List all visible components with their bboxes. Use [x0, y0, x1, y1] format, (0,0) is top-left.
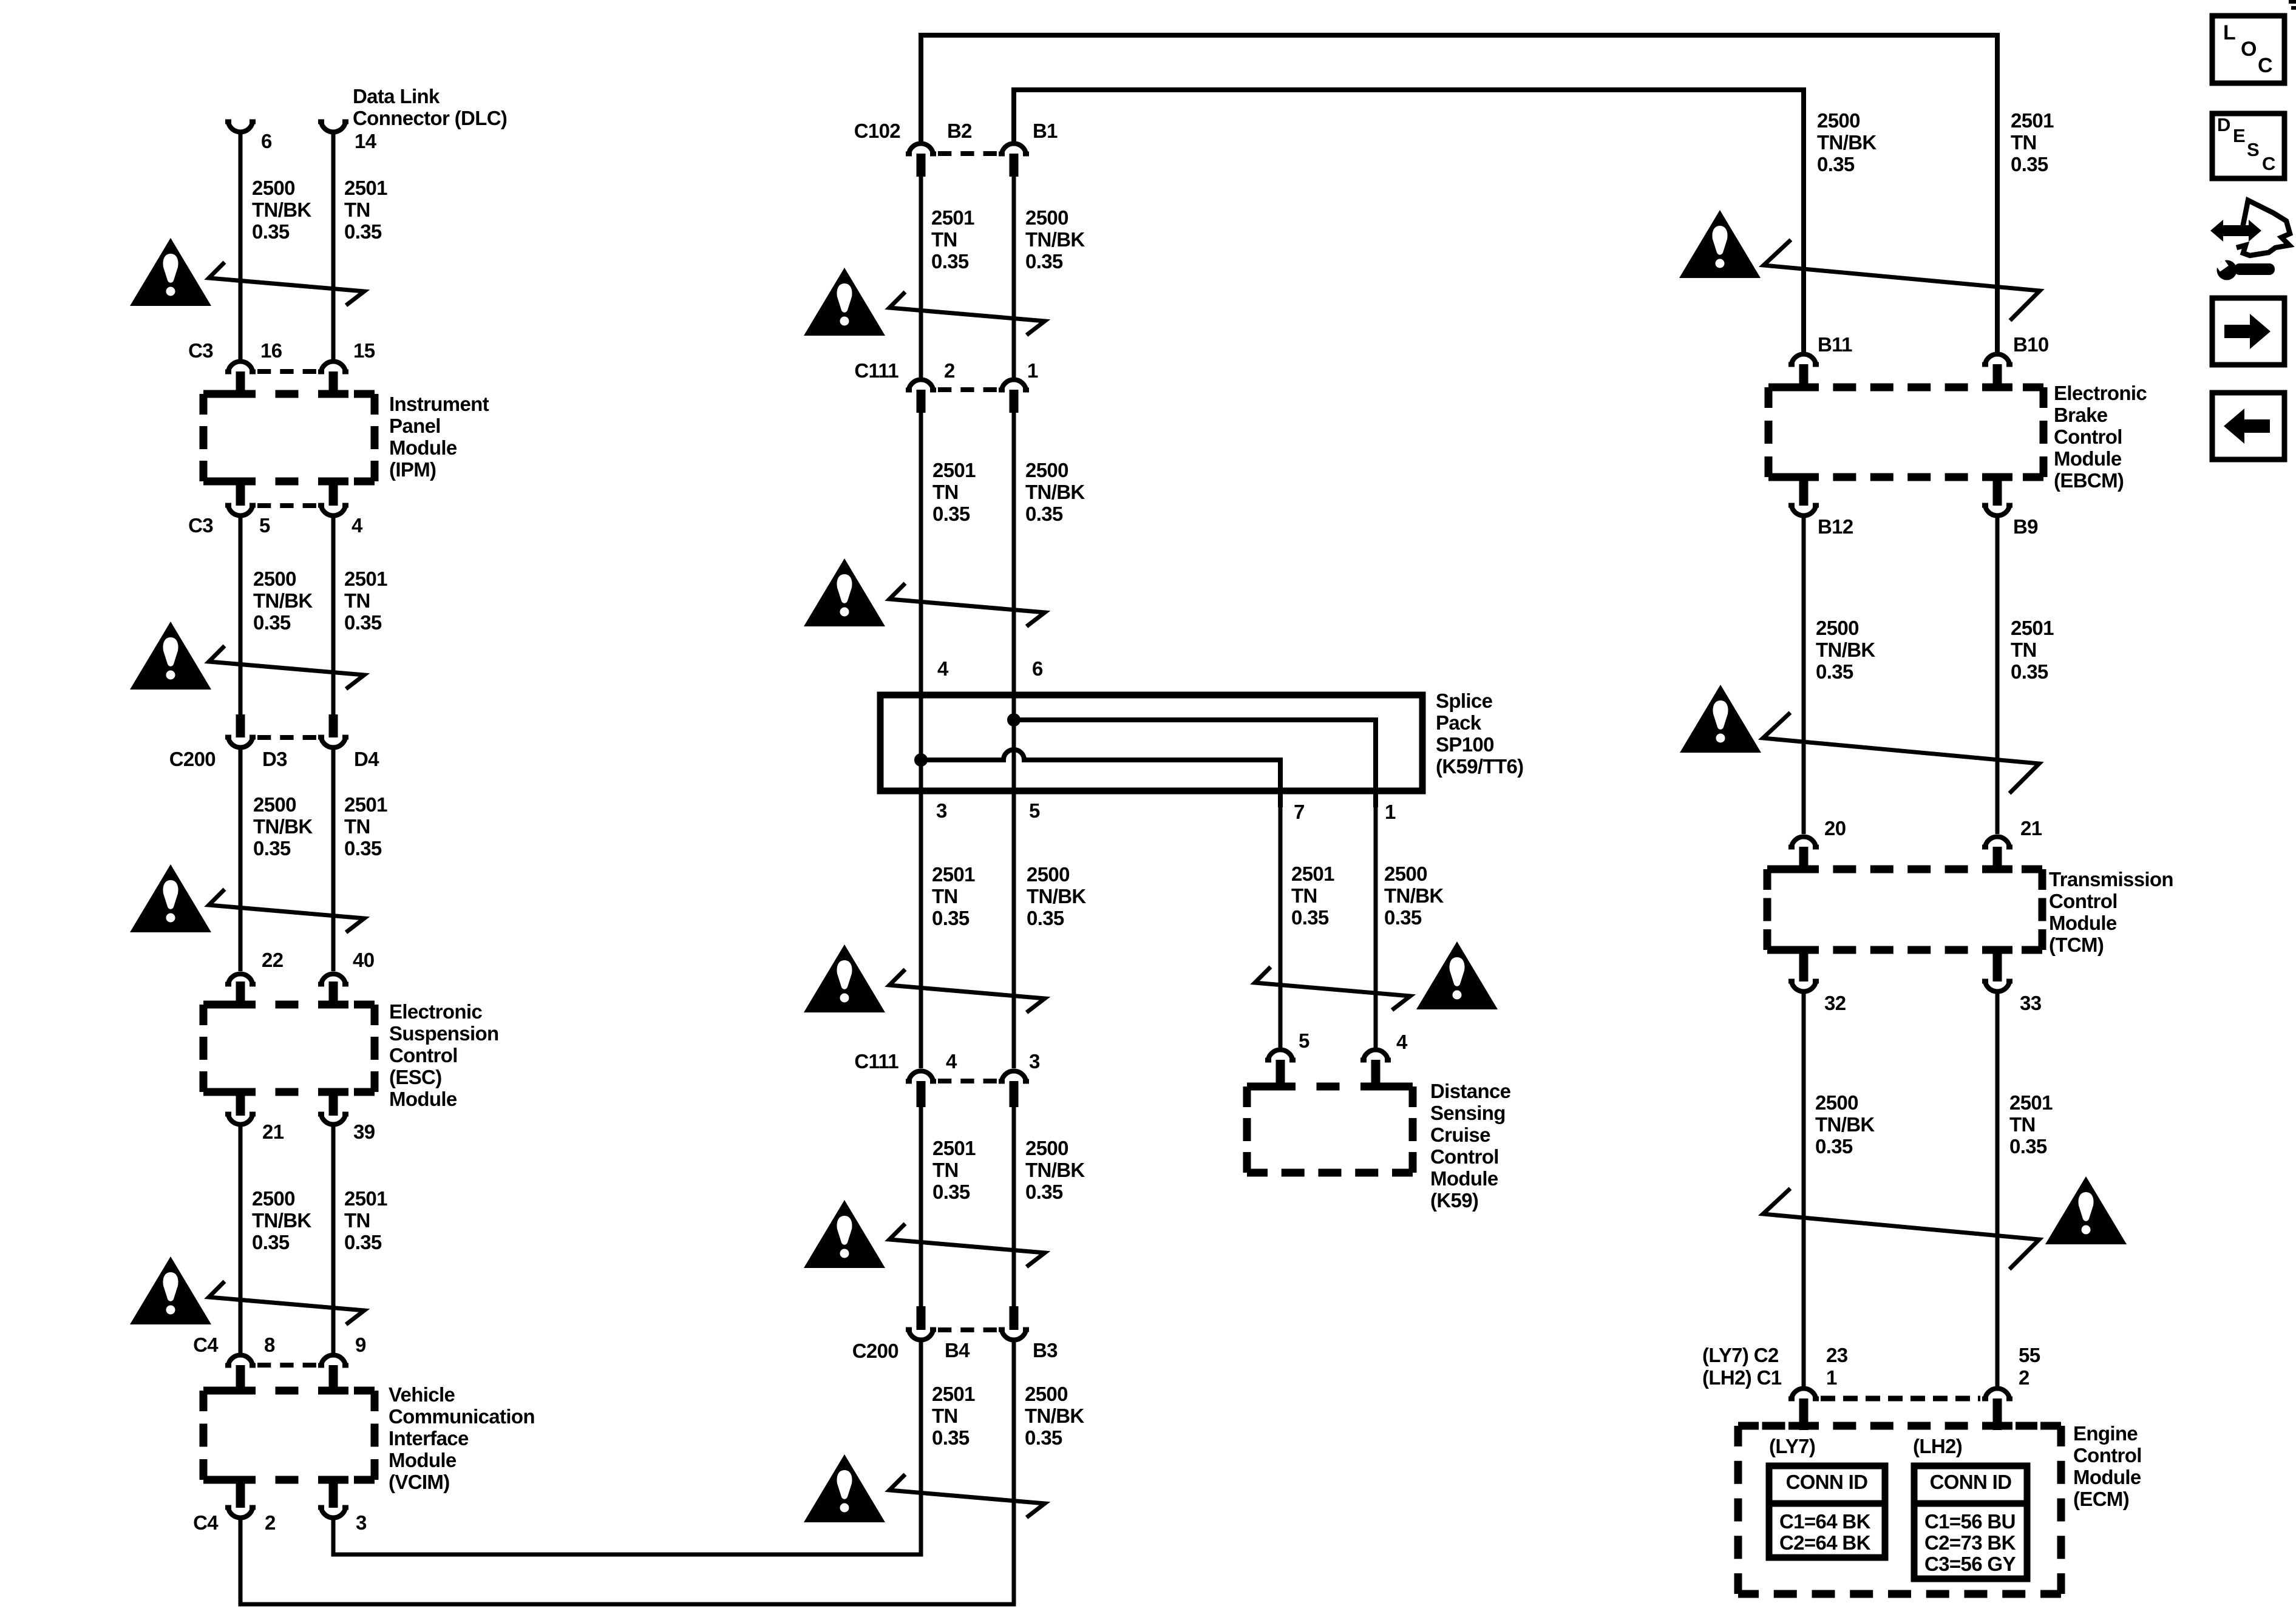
pin5 stub	[1276, 1060, 1285, 1090]
connector TCM pin33 cup	[1982, 979, 2012, 991]
wire 2500 TN/BK C102-B1 to C111-1	[1012, 175, 1016, 379]
warning triangle 9	[804, 1454, 885, 1522]
svg-text:C: C	[2258, 54, 2272, 77]
B9 stub	[1993, 475, 2002, 506]
connector C3 pin16 dome	[225, 361, 256, 374]
sidebar next arrow button	[2212, 298, 2284, 365]
B2 stub	[917, 154, 926, 177]
wire 2500 TN/BK splice-1 to K59-4	[1374, 807, 1378, 1048]
svg-text:Connector (DLC): Connector (DLC)	[353, 107, 507, 129]
svg-text:C: C	[2262, 153, 2275, 174]
C3 dashed link bottom	[257, 503, 316, 508]
svg-text:B2: B2	[947, 120, 972, 142]
pin4 stub	[329, 479, 338, 506]
svg-text:CONN ID: CONN ID	[1930, 1471, 2012, 1493]
svg-text:2: 2	[2019, 1366, 2029, 1389]
C4 dashed link	[257, 1363, 316, 1368]
connector C200 D4 cup	[318, 735, 348, 748]
svg-text:S: S	[2247, 139, 2259, 160]
connector DLC pin 14 cup	[318, 120, 348, 132]
wire 2501 TN C111-4 to C200-B4	[919, 1106, 923, 1310]
warning triangle 6	[804, 558, 885, 626]
harness crossing symbol 3	[209, 889, 364, 932]
pin33 stub	[1993, 947, 2002, 981]
harness crossing symbol 2	[209, 646, 364, 689]
svg-text:3: 3	[356, 1511, 367, 1534]
module box ESC	[203, 1005, 375, 1092]
svg-text:5: 5	[1299, 1029, 1309, 1052]
svg-text:B1: B1	[1033, 120, 1058, 142]
pin23 stub	[1799, 1398, 1809, 1430]
connector ESC pin39 cup	[318, 1112, 348, 1125]
pin21 stub	[236, 1090, 245, 1116]
pin16 stub	[236, 371, 245, 396]
wire 2501 TN TCM-33 to ECM-55	[1995, 994, 2000, 1386]
module box VCIM	[203, 1391, 375, 1480]
pin55 stub	[1993, 1398, 2002, 1430]
warning triangle 11	[1679, 210, 1761, 278]
connector ESC pin21 cup	[225, 1112, 256, 1125]
svg-text:C1=64 BK: C1=64 BK	[1779, 1510, 1871, 1533]
pin40 stub	[329, 981, 338, 1007]
CONN ID table LY7	[1769, 1466, 1885, 1558]
C102 dashed link	[938, 151, 997, 156]
svg-text:21: 21	[2020, 817, 2042, 839]
svg-text:C111: C111	[854, 1050, 898, 1073]
svg-text:2: 2	[944, 359, 955, 382]
sidebar repair icon double arrow	[2210, 220, 2261, 242]
svg-text:C3: C3	[188, 514, 213, 537]
svg-text:15: 15	[353, 339, 375, 362]
connector C111 pin4 dome	[906, 1071, 936, 1083]
svg-text:7: 7	[1294, 801, 1305, 823]
svg-text:O: O	[2241, 38, 2257, 61]
svg-text:C4: C4	[193, 1511, 219, 1534]
svg-text:B9: B9	[2013, 515, 2038, 538]
module box ECM	[1738, 1426, 2061, 1594]
wire 2500 TN/BK C111-3 to C200-B3	[1012, 1106, 1016, 1310]
svg-text:C102: C102	[854, 120, 901, 142]
connector C3 pin15 dome	[318, 361, 348, 374]
B1 stub	[1010, 154, 1019, 177]
warning triangle 10	[1416, 941, 1498, 1009]
svg-text:E: E	[2233, 125, 2245, 146]
pin3 stub	[329, 1483, 338, 1508]
svg-text:4: 4	[946, 1050, 957, 1073]
wire 2500 TN/BK ESC-21 to VCIM-8	[239, 1127, 243, 1354]
wire 2501 TN IPM-4 to C200-D4	[331, 517, 336, 717]
pin20 stub	[1799, 847, 1809, 873]
ECM dashed link	[1821, 1396, 1980, 1402]
C200 D3 stub	[236, 714, 245, 737]
svg-text:C3: C3	[188, 339, 213, 362]
warning triangle 3	[130, 864, 211, 932]
svg-text:5: 5	[259, 514, 270, 537]
harness crossing symbol 12	[1763, 713, 2039, 793]
pin22 stub	[236, 981, 245, 1007]
svg-text:C2=73 BK: C2=73 BK	[1924, 1531, 2016, 1554]
connector C3 pin5 cup	[225, 503, 256, 515]
svg-text:23: 23	[1826, 1344, 1848, 1366]
svg-text:2: 2	[265, 1511, 276, 1534]
wire 2500 TN/BK IPM-5 to C200-D3	[239, 517, 243, 717]
svg-text:C200: C200	[169, 748, 216, 770]
pin4 stub	[1371, 1060, 1381, 1090]
svg-text:4: 4	[1396, 1031, 1408, 1053]
wire 2500 TN/BK C200-D3 to ESC-22	[239, 748, 243, 971]
svg-text:C111: C111	[854, 359, 898, 382]
wire 2500 TN/BK TCM-32 to ECM-23	[1802, 994, 1806, 1386]
warning triangle 7	[804, 944, 885, 1012]
wire 2501 TN C102-B2 to C111-2	[919, 175, 923, 379]
connector EBCM B10 dome	[1982, 354, 2012, 367]
wire VCIM-3 to C200-B4 bottom run	[333, 1341, 921, 1554]
C200 B4 stub	[917, 1306, 926, 1330]
svg-text:4: 4	[352, 514, 363, 537]
pin21 stub	[1993, 847, 2002, 873]
clipped page mark top right corner	[2289, 2, 2296, 8]
connector C102 B2 dome	[906, 143, 936, 156]
svg-text:D3: D3	[262, 748, 287, 770]
C200 B3 stub	[1010, 1306, 1019, 1330]
pin2 stub	[236, 1483, 245, 1508]
connector C4 pin3 cup	[318, 1505, 348, 1518]
wire 2501 TN EBCM-B9 to TCM-21	[1995, 518, 2000, 834]
svg-text:C1=56 BU: C1=56 BU	[1924, 1510, 2016, 1533]
connector EBCM B12 cup	[1788, 503, 1819, 515]
connector C4 pin8 dome	[225, 1355, 256, 1368]
wire 2500 TN/BK EBCM-B12 to TCM-20	[1802, 518, 1806, 834]
harness crossing symbol 6	[889, 583, 1045, 626]
svg-text:39: 39	[353, 1120, 375, 1143]
C200 D4 stub	[329, 714, 338, 737]
wire 2501 TN C111-2 through splice pack	[919, 410, 923, 1068]
svg-text:33: 33	[2020, 992, 2042, 1014]
pin5 stub	[236, 479, 245, 506]
C111 dashed link lower	[938, 1079, 997, 1083]
svg-text:20: 20	[1824, 817, 1846, 839]
sidebar DESC button	[2212, 114, 2284, 178]
warning triangle 1	[130, 238, 211, 306]
connector ESC pin40 dome	[318, 974, 348, 986]
connector ECM pin55 dome	[1982, 1389, 2012, 1402]
pin9 stub	[329, 1365, 338, 1393]
wire second run to EBCM B11	[1014, 90, 1804, 352]
B12 stub	[1799, 475, 1809, 506]
connector C200 B3 cup	[999, 1327, 1029, 1340]
junction dot on wire 2500	[1007, 713, 1021, 727]
warning triangle 8	[804, 1200, 885, 1268]
junction dot on wire 2501	[914, 753, 928, 767]
wire 2501 TN C200-D4 to ESC-40	[331, 748, 336, 971]
sidebar LOC button	[2212, 16, 2284, 83]
svg-text:1: 1	[1826, 1366, 1837, 1389]
sidebar repair icon outline shape	[2237, 200, 2290, 256]
pin3 stub	[1010, 1081, 1019, 1107]
svg-text:C2=64 BK: C2=64 BK	[1779, 1531, 1871, 1554]
connector DLC pin 6 cup	[225, 120, 256, 132]
svg-text:D4: D4	[354, 748, 379, 770]
wire 2500 TN/BK DLC-6 to IPM-16	[239, 134, 243, 359]
svg-text:8: 8	[264, 1334, 275, 1356]
svg-text:55: 55	[2019, 1344, 2040, 1366]
svg-text:C4: C4	[193, 1334, 219, 1356]
connector EBCM B11 dome	[1788, 354, 1819, 367]
connector C102 B1 dome	[999, 143, 1029, 156]
warning triangle 2	[130, 622, 211, 690]
harness crossing symbol 4	[209, 1281, 364, 1324]
svg-text:(LY7): (LY7)	[1769, 1435, 1815, 1457]
connector ESC pin22 dome	[225, 974, 256, 986]
harness crossing symbol 13	[1763, 1188, 2039, 1269]
svg-text:B3: B3	[1033, 1339, 1058, 1361]
module box TCM	[1767, 869, 2042, 950]
pin15 stub	[329, 371, 338, 396]
svg-text:(LY7) C2: (LY7) C2	[1702, 1344, 1779, 1366]
svg-text:3: 3	[1029, 1050, 1040, 1073]
svg-text:16: 16	[260, 339, 282, 362]
harness crossing symbol 8	[889, 1224, 1045, 1267]
connector C111 pin2 dome	[906, 380, 936, 393]
wire 2500 TN/BK C111-1 through splice pack	[1012, 410, 1016, 1068]
sidebar repair icon wrench	[2216, 260, 2275, 280]
C111 dashed link upper	[938, 387, 997, 392]
C3 dashed link	[257, 369, 316, 374]
svg-text:C3=56 GY: C3=56 GY	[1924, 1553, 2016, 1575]
harness crossing symbol 7	[889, 969, 1045, 1012]
svg-text:6: 6	[261, 130, 272, 152]
module box EBCM	[1768, 387, 2043, 477]
pin32 stub	[1799, 947, 1809, 981]
harness crossing symbol 10	[1255, 967, 1410, 1010]
pin8 stub	[236, 1365, 245, 1393]
splice pack SP100 box	[880, 695, 1422, 791]
svg-text:(LH2): (LH2)	[1913, 1435, 1962, 1457]
svg-text:B11: B11	[1818, 333, 1852, 356]
svg-text:32: 32	[1824, 992, 1846, 1014]
harness crossing symbol 11	[1764, 240, 2040, 320]
warning triangle 4	[130, 1256, 211, 1324]
connector TCM pin21 dome	[1982, 836, 2012, 849]
svg-text:1: 1	[1027, 359, 1038, 382]
connector EBCM B9 cup	[1982, 503, 2012, 515]
module box IPM	[203, 394, 375, 481]
CONN ID table LH2	[1914, 1466, 2027, 1579]
connector C200 D3 cup	[225, 735, 256, 748]
svg-text:B4: B4	[945, 1339, 970, 1361]
harness crossing symbol 1	[209, 262, 364, 305]
svg-text:9: 9	[355, 1334, 366, 1356]
wire top run DLC bus to EBCM B10	[921, 35, 1997, 352]
wire 2501 TN ESC-39 to VCIM-9	[331, 1127, 336, 1354]
connector C111 pin3 dome	[999, 1071, 1029, 1083]
svg-text:6: 6	[1032, 657, 1043, 680]
connector C200 B4 cup	[906, 1327, 936, 1340]
svg-text:L: L	[2223, 21, 2235, 44]
module box K59	[1247, 1086, 1413, 1173]
connector C4 pin2 cup	[225, 1505, 256, 1518]
warning triangle 12	[1680, 685, 1761, 753]
svg-text:22: 22	[262, 949, 284, 971]
warning triangle 5	[804, 268, 885, 336]
svg-text:3: 3	[936, 799, 947, 822]
svg-text:B10: B10	[2013, 333, 2049, 356]
pin2 stub	[917, 390, 926, 413]
warning triangle 13	[2045, 1176, 2127, 1244]
C200 dashed link middle	[938, 1327, 997, 1332]
svg-text:B12: B12	[1818, 515, 1853, 538]
svg-text:C200: C200	[852, 1340, 898, 1362]
B11 stub	[1799, 364, 1809, 391]
connector C3 pin4 cup	[318, 503, 348, 515]
harness crossing symbol 9	[889, 1474, 1045, 1517]
wire 2501 TN DLC-14 to IPM-15	[331, 134, 336, 359]
connector TCM pin32 cup	[1788, 979, 1819, 991]
pin1 stub	[1010, 390, 1019, 413]
connector ECM pin23 dome	[1788, 1389, 1819, 1402]
pin39 stub	[329, 1090, 338, 1116]
svg-text:1: 1	[1385, 801, 1396, 823]
svg-text:(LH2) C1: (LH2) C1	[1702, 1366, 1782, 1389]
B10 stub	[1993, 364, 2002, 391]
harness crossing symbol 5	[889, 292, 1045, 335]
C200 dashed link	[257, 735, 316, 740]
svg-text:Data Link: Data Link	[353, 85, 440, 107]
svg-text:40: 40	[353, 949, 374, 971]
pin4 stub	[917, 1081, 926, 1107]
svg-text:CONN ID: CONN ID	[1786, 1471, 1868, 1493]
splice internal bus lower with hop	[921, 750, 1280, 807]
wire 2501 TN splice-7 to K59-5	[1279, 807, 1283, 1048]
svg-text:D: D	[2217, 114, 2230, 135]
connector TCM pin20 dome	[1788, 836, 1819, 849]
svg-text:5: 5	[1029, 799, 1040, 822]
connector C4 pin9 dome	[318, 1355, 348, 1368]
sidebar back arrow button	[2212, 393, 2284, 459]
connector C111 pin1 dome	[999, 380, 1029, 393]
splice internal bus upper	[1014, 720, 1376, 807]
connector K59 pin4 dome	[1360, 1050, 1391, 1063]
wire VCIM-2 to C200-B3 bottom run	[240, 1341, 1014, 1604]
svg-text:4: 4	[937, 657, 949, 680]
svg-text:14: 14	[355, 130, 377, 152]
connector K59 pin5 dome	[1265, 1050, 1296, 1063]
svg-text:21: 21	[262, 1120, 284, 1143]
